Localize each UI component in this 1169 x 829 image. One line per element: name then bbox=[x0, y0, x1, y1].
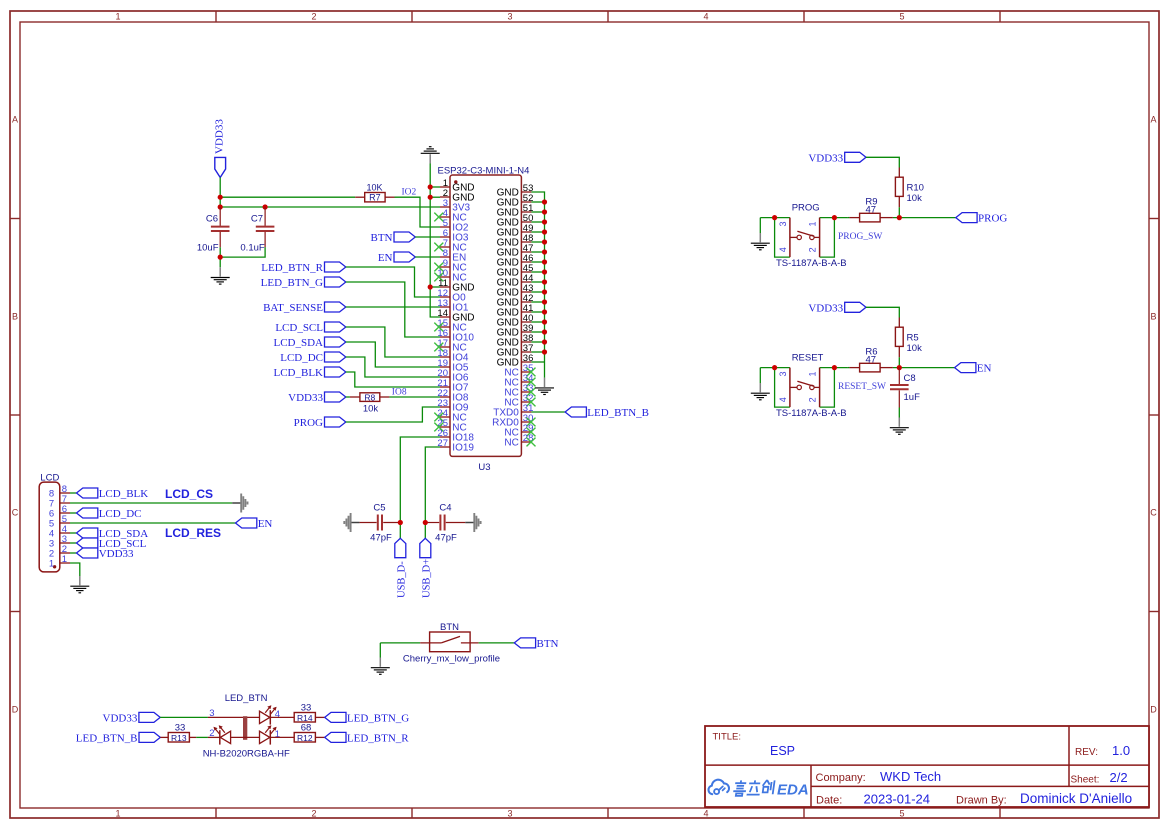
wire R13 to LED pin 2 bbox=[196, 736, 208, 738]
svg-text:1: 1 bbox=[62, 554, 67, 565]
port PROG bbox=[294, 417, 346, 429]
port LED_BTN_B bbox=[76, 732, 161, 744]
wire pin 44 to GND bus bbox=[531, 281, 544, 283]
svg-text:Dominick D'Aniello: Dominick D'Aniello bbox=[1020, 791, 1132, 806]
wire pin 48 to GND bus bbox=[531, 241, 544, 243]
svg-text:47: 47 bbox=[866, 204, 877, 215]
svg-text:LED_BTN_B: LED_BTN_B bbox=[76, 732, 138, 744]
svg-text:EN: EN bbox=[977, 363, 992, 375]
wire LCD pin 2 bbox=[70, 552, 77, 554]
svg-text:LCD: LCD bbox=[40, 473, 59, 484]
junction RESET switch left bbox=[772, 365, 777, 370]
U3 pin 21 IO7 bbox=[437, 378, 468, 394]
junction VDD33/R7 bbox=[218, 195, 223, 200]
wire GND to pin 1 bbox=[430, 186, 440, 188]
wire switch to BTN port bbox=[479, 642, 515, 644]
wire LCD pin 5 EN bbox=[70, 522, 236, 524]
wire LCD_SDA to pin 19 bbox=[346, 342, 440, 367]
port VDD33 (PROG pullup) bbox=[808, 152, 866, 164]
U3 pin 41 GND bbox=[497, 303, 534, 319]
junction GND pin 11 bbox=[428, 284, 433, 289]
junction PROG switch left bbox=[772, 215, 777, 220]
svg-text:C6: C6 bbox=[206, 214, 218, 225]
junction GND bus pin 51 bbox=[542, 209, 547, 214]
svg-text:A: A bbox=[12, 115, 18, 125]
wire pin 46 to GND bus bbox=[531, 261, 544, 263]
wire LCD_DC to pin 20 bbox=[346, 357, 440, 377]
wire pin 39 to GND bus bbox=[531, 331, 544, 333]
U3 pin 9 NC bbox=[434, 258, 466, 274]
U3 pin 52 GND bbox=[497, 193, 534, 209]
svg-text:1.0: 1.0 bbox=[1112, 743, 1130, 758]
port LED_BTN_R bbox=[325, 732, 410, 744]
svg-text:A: A bbox=[1150, 115, 1156, 125]
wire pin 43 to GND bus bbox=[531, 291, 544, 293]
U3 pin 47 GND bbox=[497, 243, 534, 259]
svg-text:10k: 10k bbox=[907, 343, 923, 354]
svg-text:PROG: PROG bbox=[294, 417, 323, 429]
wire pin 52 to GND bus bbox=[531, 201, 544, 203]
U3 pin 22 IO8 bbox=[437, 388, 468, 404]
svg-text:BTN: BTN bbox=[371, 232, 393, 244]
junction USB_D- / C5 bbox=[398, 520, 403, 525]
wire VDD33 to R10 bbox=[866, 157, 899, 167]
svg-text:USB_D-: USB_D- bbox=[396, 561, 407, 598]
wire pin 31 TXD0 to LED_BTN_B bbox=[531, 411, 565, 413]
junction GND bus pin 39 bbox=[542, 329, 547, 334]
svg-text:RESET: RESET bbox=[792, 352, 824, 363]
svg-text:C: C bbox=[12, 508, 19, 518]
svg-text:PROG: PROG bbox=[792, 202, 820, 213]
svg-text:VDD33: VDD33 bbox=[808, 302, 843, 314]
wire EN to pin 8 bbox=[415, 256, 440, 258]
junction GND pin 2 bbox=[428, 195, 433, 200]
port VDD33 (LED anode) bbox=[103, 712, 161, 724]
port PROG (right) bbox=[956, 213, 1008, 225]
wire pin 49 to GND bus bbox=[531, 231, 544, 233]
port EN bbox=[378, 252, 415, 264]
resistor R9 bbox=[848, 197, 893, 222]
svg-text:10uF: 10uF bbox=[197, 243, 219, 254]
title block bbox=[705, 726, 1149, 807]
wire LCD pin 4 bbox=[70, 532, 77, 534]
svg-text:C7: C7 bbox=[251, 214, 263, 225]
wire PROG to pin 23 bbox=[346, 407, 440, 422]
svg-text:EN: EN bbox=[378, 252, 393, 264]
svg-text:R7: R7 bbox=[369, 193, 381, 203]
U3 pin 2 GND bbox=[440, 188, 475, 204]
svg-text:BTN: BTN bbox=[537, 638, 559, 650]
U3 pin 8 EN bbox=[440, 248, 466, 264]
U3 pin 3 3V3 bbox=[440, 198, 471, 214]
svg-text:68: 68 bbox=[301, 722, 312, 733]
ground (LCD pin 1) bbox=[70, 576, 89, 593]
svg-text:LCD_SDA: LCD_SDA bbox=[273, 337, 323, 349]
wire RESET switch right bbox=[820, 367, 848, 369]
svg-text:3: 3 bbox=[778, 371, 788, 376]
port VDD33 (R8 pullup) bbox=[288, 392, 346, 404]
wire C6 to ground bbox=[219, 247, 221, 267]
port BTN bbox=[371, 232, 416, 244]
wire LCD pin 8 bbox=[70, 492, 77, 494]
svg-text:C: C bbox=[1150, 508, 1157, 518]
net tap LCD_CS bbox=[232, 494, 247, 513]
svg-text:LED_BTN_G: LED_BTN_G bbox=[261, 277, 323, 289]
svg-text:4: 4 bbox=[778, 247, 788, 252]
svg-text:3: 3 bbox=[507, 809, 512, 819]
svg-text:1: 1 bbox=[808, 221, 818, 226]
junction GND bus pin 50 bbox=[542, 219, 547, 224]
svg-text:C4: C4 bbox=[439, 503, 451, 514]
svg-text:LCD_SCL: LCD_SCL bbox=[275, 322, 323, 334]
svg-text:LED_BTN: LED_BTN bbox=[225, 693, 268, 704]
svg-text:Drawn By:: Drawn By: bbox=[956, 795, 1007, 807]
capacitor C8 bbox=[890, 368, 920, 408]
port BAT_SENSE bbox=[263, 302, 346, 314]
svg-text:4: 4 bbox=[703, 12, 708, 22]
port LED_BTN_R bbox=[261, 262, 346, 274]
junction GND bus pin 48 bbox=[542, 239, 547, 244]
LED pin 1 lead to R12 bbox=[270, 736, 294, 738]
resistor R13 bbox=[168, 722, 196, 743]
port LED_BTN_G bbox=[325, 712, 410, 724]
wire pin 27 IO19 to USB_D+ bbox=[425, 447, 440, 538]
wire PROG switch left bbox=[760, 217, 790, 219]
svg-text:TITLE:: TITLE: bbox=[713, 732, 742, 743]
LCD pin 3 bbox=[49, 534, 70, 550]
svg-text:5: 5 bbox=[899, 809, 904, 819]
LED pin 3 lead bbox=[208, 708, 260, 719]
switch PROG_SW TS-1187A-B-A-B bbox=[776, 202, 847, 269]
wire RESET switch left bbox=[760, 367, 790, 369]
svg-text:47pF: 47pF bbox=[370, 533, 392, 544]
port LCD_SDA bbox=[273, 337, 345, 349]
svg-text:RESET_SW: RESET_SW bbox=[838, 382, 886, 392]
capacitor C5 bbox=[344, 503, 400, 544]
U3 pin 17 NC bbox=[434, 338, 466, 354]
svg-text:WKD Tech: WKD Tech bbox=[880, 769, 941, 784]
U3 pin 35 NC bbox=[504, 363, 535, 379]
resistor R6 bbox=[848, 347, 893, 372]
svg-text:1: 1 bbox=[49, 558, 54, 569]
junction GND bus pin 40 bbox=[542, 319, 547, 324]
svg-text:USB_D+: USB_D+ bbox=[421, 559, 432, 598]
wire pin 50 to GND bus bbox=[531, 221, 544, 223]
U3 pin 37 GND bbox=[497, 343, 534, 359]
resistor R5 bbox=[895, 318, 922, 358]
U3 pin 40 GND bbox=[497, 313, 534, 329]
wire C7 to C6 ground node bbox=[220, 247, 265, 257]
port LCD_SCL bbox=[275, 322, 345, 334]
svg-text:47: 47 bbox=[866, 354, 877, 365]
U3 pin 36 GND bbox=[497, 353, 534, 369]
wire GND column left of U3 bbox=[430, 164, 440, 318]
LCD pin 1 bbox=[49, 554, 70, 570]
LCD pin 6 bbox=[49, 504, 70, 520]
port LCD_SDA (LCD pin 4) bbox=[77, 528, 149, 540]
U3 pin 20 IO6 bbox=[437, 368, 468, 384]
svg-text:LED_BTN_R: LED_BTN_R bbox=[347, 732, 409, 744]
svg-text:Date:: Date: bbox=[816, 795, 842, 807]
U3 pin 34 NC bbox=[504, 373, 535, 389]
wire 3V3 rail to pin 3 bbox=[220, 206, 440, 208]
svg-text:C8: C8 bbox=[904, 373, 916, 384]
capacitor C7 bbox=[240, 207, 274, 254]
wire R10 to PROG rail bbox=[898, 207, 900, 217]
U3 pin 43 GND bbox=[497, 283, 534, 299]
svg-text:33: 33 bbox=[175, 722, 186, 733]
svg-text:10k: 10k bbox=[363, 404, 379, 415]
svg-text:33: 33 bbox=[301, 702, 312, 713]
port BTN (bottom) bbox=[514, 638, 558, 650]
U3 pin 12 O0 bbox=[437, 288, 466, 304]
wire LCD_SCL to pin 18 bbox=[346, 327, 440, 357]
svg-text:3: 3 bbox=[507, 12, 512, 22]
svg-text:2/2: 2/2 bbox=[1110, 770, 1128, 785]
svg-text:PROG_SW: PROG_SW bbox=[838, 232, 882, 242]
junction GND bus pin 41 bbox=[542, 309, 547, 314]
svg-text:TS-1187A-B-A-B: TS-1187A-B-A-B bbox=[776, 258, 847, 269]
port LED_BTN_B (at TXD0) bbox=[565, 407, 649, 419]
resistor R12 bbox=[294, 722, 325, 743]
wire VDD33 to R5 bbox=[866, 307, 899, 317]
U3 pin 14 GND bbox=[437, 308, 474, 324]
wire GND to pin 2 bbox=[430, 196, 440, 198]
wire pin 47 to GND bus bbox=[531, 251, 544, 253]
svg-text:R13: R13 bbox=[171, 733, 187, 743]
svg-text:LED_BTN_G: LED_BTN_G bbox=[347, 712, 409, 724]
wire R8 to pin 22 IO8 bbox=[389, 396, 440, 398]
U3 pin 29 NC bbox=[504, 423, 535, 439]
port LCD_DC bbox=[280, 352, 346, 364]
U3 pin 44 GND bbox=[497, 273, 534, 289]
svg-text:1: 1 bbox=[115, 809, 120, 819]
svg-text:4: 4 bbox=[703, 809, 708, 819]
connector LCD body bbox=[39, 473, 60, 572]
LCD pin 5 bbox=[49, 514, 70, 530]
junction GND bus pin 42 bbox=[542, 299, 547, 304]
port USB_D+ bbox=[420, 538, 433, 598]
svg-text:EN: EN bbox=[258, 518, 273, 530]
wire pin 51 to GND bus bbox=[531, 211, 544, 213]
svg-text:4: 4 bbox=[275, 709, 280, 720]
U3 pin 23 IO9 bbox=[437, 398, 468, 414]
svg-text:R8: R8 bbox=[364, 392, 375, 402]
wire LED_BTN_G to pin 16 bbox=[346, 282, 440, 337]
svg-text:Company:: Company: bbox=[816, 772, 866, 784]
U3 pin 19 IO5 bbox=[437, 358, 468, 374]
wire GND bus right of U3 bbox=[531, 192, 544, 378]
junction PROG switch right bbox=[832, 215, 837, 220]
wire LCD pin 7 LCD_CS bbox=[70, 502, 232, 504]
svg-text:LED_BTN_B: LED_BTN_B bbox=[587, 407, 649, 419]
svg-text:0.1uF: 0.1uF bbox=[240, 243, 264, 254]
wire LED_BTN_B to R13 bbox=[160, 736, 168, 738]
wire pin 38 to GND bus bbox=[531, 341, 544, 343]
U3 pin 39 GND bbox=[497, 323, 534, 339]
svg-text:2023-01-24: 2023-01-24 bbox=[864, 792, 931, 807]
wire GND to pin 11 bbox=[430, 286, 440, 288]
junction GND bus pin 37 bbox=[542, 349, 547, 354]
U3 pin 7 NC bbox=[434, 238, 466, 254]
svg-text:PROG: PROG bbox=[978, 213, 1007, 225]
wire pin 41 to GND bus bbox=[531, 311, 544, 313]
U3 pin 48 GND bbox=[497, 233, 534, 249]
ground (C8) bbox=[890, 418, 909, 435]
svg-text:B: B bbox=[12, 312, 18, 322]
U3 pin 16 IO10 bbox=[437, 328, 474, 344]
junction GND bus pin 44 bbox=[542, 279, 547, 284]
wire BTN to pin 6 bbox=[415, 236, 440, 238]
svg-text:VDD33: VDD33 bbox=[103, 712, 138, 724]
svg-text:2: 2 bbox=[209, 728, 214, 739]
junction USB_D+ / C4 bbox=[423, 520, 428, 525]
svg-text:LCD_CS: LCD_CS bbox=[165, 487, 213, 501]
junction C7 tap bbox=[263, 204, 268, 209]
junction GND pin 1 bbox=[428, 184, 433, 189]
LED pin 4 lead to R14 bbox=[270, 716, 294, 718]
port LED_BTN_G bbox=[261, 277, 346, 289]
LED red die D-R bbox=[260, 725, 280, 744]
wire BTN switch to ground bbox=[380, 642, 420, 644]
U3 pin 4 NC bbox=[434, 208, 466, 224]
resistor R8 bbox=[350, 392, 390, 414]
svg-text:D: D bbox=[12, 705, 19, 715]
switch BTN Cherry_mx_low_profile bbox=[403, 622, 500, 664]
U3 pin 26 IO18 bbox=[437, 428, 474, 444]
svg-text:U3: U3 bbox=[478, 462, 490, 473]
wire VDD33 to R7 (net IO2 pullup) bbox=[220, 196, 355, 198]
wire VDD33 stem bbox=[219, 178, 221, 208]
svg-text:ESP: ESP bbox=[770, 744, 795, 758]
ground (above U3) bbox=[421, 147, 440, 164]
U3 pin 33 NC bbox=[504, 383, 535, 399]
wire PROG switch right bbox=[820, 217, 848, 219]
U3 pin 30 RXD0 bbox=[492, 413, 535, 429]
LED green die D-G bbox=[260, 705, 280, 724]
port EN (right) bbox=[955, 363, 992, 375]
svg-text:4: 4 bbox=[778, 397, 788, 402]
svg-text:VDD33: VDD33 bbox=[99, 548, 134, 560]
LCD pin 2 bbox=[49, 544, 70, 560]
svg-text:2: 2 bbox=[808, 247, 818, 252]
svg-text:2: 2 bbox=[808, 397, 818, 402]
svg-text:3: 3 bbox=[209, 708, 214, 719]
svg-text:NC: NC bbox=[504, 438, 518, 449]
LED pin 2 lead bbox=[208, 728, 220, 739]
svg-text:LCD_BLK: LCD_BLK bbox=[99, 488, 149, 500]
svg-text:EDA: EDA bbox=[777, 782, 809, 799]
resistor R14 bbox=[294, 702, 325, 723]
U3 pin 31 TXD0 bbox=[493, 403, 533, 419]
svg-text:REV:: REV: bbox=[1075, 747, 1098, 758]
svg-text:LCD_DC: LCD_DC bbox=[280, 352, 323, 364]
wire BAT_SENSE to pin 13 bbox=[346, 306, 440, 308]
U3 pin 18 IO4 bbox=[437, 348, 468, 364]
capacitor C6 bbox=[197, 207, 230, 254]
U3 pin 45 GND bbox=[497, 263, 534, 279]
U3 pin 50 GND bbox=[497, 213, 534, 229]
svg-text:LCD_DC: LCD_DC bbox=[99, 508, 142, 520]
svg-text:2: 2 bbox=[311, 809, 316, 819]
svg-text:BTN: BTN bbox=[440, 622, 459, 633]
wire pin 26 IO18 to USB_D- bbox=[400, 437, 440, 538]
svg-text:Sheet:: Sheet: bbox=[1071, 775, 1100, 786]
wire R9 to PROG port bbox=[893, 217, 956, 219]
port LCD_BLK bbox=[274, 367, 346, 379]
op-amp U3 ESP32-C3-MINI-1-N4 body bbox=[438, 166, 530, 474]
svg-text:R14: R14 bbox=[297, 713, 313, 723]
resistor R10 bbox=[895, 168, 924, 208]
U3 pin 1 GND bbox=[440, 178, 475, 194]
U3 pin 25 NC bbox=[434, 418, 466, 434]
svg-text:3: 3 bbox=[778, 221, 788, 226]
ground (C6/C7) bbox=[211, 267, 230, 284]
LED common bar bbox=[243, 716, 247, 740]
logo JLC EDA bbox=[709, 780, 809, 799]
wire VDD33 to R8 bbox=[346, 396, 350, 398]
junction GND bus pin 45 bbox=[542, 269, 547, 274]
wire pin 36 to GND bus bbox=[531, 361, 544, 363]
U3 pin 27 IO19 bbox=[437, 438, 474, 454]
svg-text:LCD_BLK: LCD_BLK bbox=[274, 367, 324, 379]
U3 pin 46 GND bbox=[497, 253, 534, 269]
wire pin 45 to GND bus bbox=[531, 271, 544, 273]
svg-text:D: D bbox=[1150, 705, 1157, 715]
ground (BTN switch) bbox=[371, 658, 390, 675]
U3 pin 28 NC bbox=[504, 433, 535, 449]
svg-text:10k: 10k bbox=[907, 193, 923, 204]
port LCD_DC (LCD pin 6) bbox=[77, 508, 142, 520]
wire pin 42 to GND bus bbox=[531, 301, 544, 303]
svg-text:ESP32-C3-MINI-1-N4: ESP32-C3-MINI-1-N4 bbox=[438, 166, 530, 177]
LED blue die D-B bbox=[220, 731, 230, 743]
U3 pin 11 GND bbox=[438, 278, 474, 294]
wire pin 40 to GND bus bbox=[531, 321, 544, 323]
junction C6/C7 ground node bbox=[218, 255, 223, 260]
U3 pin 38 GND bbox=[497, 333, 534, 349]
junction PROG rail / R10 bbox=[897, 215, 902, 220]
junction GND bus pin 38 bbox=[542, 339, 547, 344]
svg-text:10K: 10K bbox=[366, 182, 382, 192]
resistor R7 bbox=[355, 182, 394, 202]
svg-text:B: B bbox=[1150, 312, 1156, 322]
wire LED_BTN_R to pin 12 bbox=[346, 267, 440, 297]
svg-text:R12: R12 bbox=[297, 733, 313, 743]
U3 pin 10 NC bbox=[434, 268, 466, 284]
svg-text:VDD33: VDD33 bbox=[214, 119, 226, 154]
U3 pin 53 GND bbox=[497, 183, 534, 199]
U3 pin 13 IO1 bbox=[437, 298, 468, 314]
switch RESET_SW TS-1187A-B-A-B bbox=[776, 352, 847, 419]
U3 pin 24 NC bbox=[434, 408, 466, 424]
LCD pin 8 bbox=[49, 484, 70, 500]
port VDD33 (RESET pullup) bbox=[808, 302, 866, 314]
LCD pin 7 bbox=[49, 494, 70, 510]
power flag VDD33 (top left) bbox=[214, 119, 226, 178]
junction GND bus pin 49 bbox=[542, 229, 547, 234]
svg-text:NH-B2020RGBA-HF: NH-B2020RGBA-HF bbox=[203, 749, 290, 760]
U3 pin 49 GND bbox=[497, 223, 534, 239]
svg-text:2: 2 bbox=[311, 12, 316, 22]
junction GND bus pin 52 bbox=[542, 199, 547, 204]
wire LCD pin 6 bbox=[70, 512, 77, 514]
svg-text:TS-1187A-B-A-B: TS-1187A-B-A-B bbox=[776, 408, 847, 419]
LED blue to bar lead bbox=[231, 736, 260, 738]
svg-text:IO19: IO19 bbox=[452, 443, 474, 454]
svg-text:VDD33: VDD33 bbox=[808, 152, 843, 164]
ground (right of U3) bbox=[535, 378, 554, 395]
